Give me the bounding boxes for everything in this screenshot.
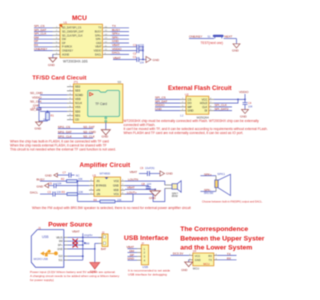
X mark xyxy=(73,239,78,244)
svg-text:SPK-: SPK- xyxy=(96,38,102,41)
capacitor C6 xyxy=(147,171,149,176)
svg-text:R2: R2 xyxy=(61,177,65,181)
svg-text:TF/SD Card Ciecuit: TF/SD Card Ciecuit xyxy=(32,75,86,81)
svg-text:VDDIO: VDDIO xyxy=(239,90,249,94)
feedback row with R4 xyxy=(78,194,134,201)
svg-text:Choose between built-in FM(SPK: Choose between built-in FM(SPK) output a… xyxy=(202,199,263,203)
svg-text:VBAT: VBAT xyxy=(127,186,135,190)
svg-text:C3: C3 xyxy=(48,190,52,194)
svg-text:DM: DM xyxy=(59,240,63,243)
ground xyxy=(36,121,43,126)
net labels xyxy=(126,245,134,261)
capacitor C9 branch xyxy=(37,99,42,121)
svg-text:GND: GND xyxy=(113,184,119,188)
chip U1 corner marker xyxy=(59,25,62,28)
chip U1 body xyxy=(60,24,103,58)
svg-text:S11: S11 xyxy=(59,259,64,262)
ground (AGND) xyxy=(49,58,57,62)
ground (left arrow) xyxy=(54,173,58,177)
svg-text:GND: GND xyxy=(195,258,201,262)
pin stubs xyxy=(189,255,218,259)
svg-text:R1: R1 xyxy=(51,114,55,118)
svg-text:C3: C3 xyxy=(133,55,137,59)
svg-text:This circuit is not needed whe: This circuit is not needed when the exte… xyxy=(10,148,116,152)
svg-text:VDD: VDD xyxy=(75,97,81,101)
ground xyxy=(150,189,160,196)
svg-text:GND: GND xyxy=(45,174,53,178)
svg-text:VDDIO: VDDIO xyxy=(94,50,102,53)
wire xyxy=(113,59,146,61)
USB logo xyxy=(44,251,55,255)
svg-text:NC: NC xyxy=(76,173,80,177)
svg-text:10uF(N): 10uF(N) xyxy=(145,166,155,170)
svg-text:VBUS: VBUS xyxy=(56,236,63,239)
wire xyxy=(189,39,237,44)
svg-text:SD_DAT/SPI_CS: SD_DAT/SPI_CS xyxy=(62,27,82,30)
svg-text:8R/W: 8R/W xyxy=(172,195,179,198)
svg-text:VCC: VCC xyxy=(195,254,201,258)
svg-text:VSS: VSS xyxy=(75,105,81,109)
svg-text:SCMD: SCMD xyxy=(75,93,83,97)
svg-text:DM: DM xyxy=(62,38,66,41)
svg-text:GND: GND xyxy=(57,248,63,251)
svg-text:ONE/KEY: ONE/KEY xyxy=(189,35,202,39)
svg-text:WP: WP xyxy=(188,105,193,109)
svg-text:DACL: DACL xyxy=(112,51,120,55)
svg-text:10K: 10K xyxy=(79,190,84,194)
svg-text:VBAT: VBAT xyxy=(72,230,80,234)
chip U2 pin names xyxy=(188,97,194,112)
svg-text:When the FM output with 8R0.5W: When the FM output with 8R0.5W speaker i… xyxy=(32,206,191,210)
svg-text:DP: DP xyxy=(62,42,66,45)
speaker SPK2 xyxy=(165,185,172,188)
svg-text:SD3: SD3 xyxy=(75,89,81,93)
svg-text:TEST(next one): TEST(next one) xyxy=(201,41,224,45)
right wires xyxy=(214,99,245,110)
wires xyxy=(68,233,103,262)
feedback vertical xyxy=(77,180,79,182)
right pin stubs xyxy=(103,28,111,55)
svg-text:SCLK: SCLK xyxy=(75,101,82,105)
svg-text:C7: C7 xyxy=(63,171,67,175)
svg-text:WT4800: WT4800 xyxy=(100,172,111,176)
svg-text:GND: GND xyxy=(181,268,187,272)
svg-text:MCU: MCU xyxy=(72,15,87,22)
svg-text:C2: C2 xyxy=(133,52,137,56)
pin numbers xyxy=(70,85,72,120)
pin stubs xyxy=(180,99,214,110)
svg-text:AGND: AGND xyxy=(62,53,69,56)
svg-text:VDD: VDD xyxy=(113,188,119,192)
capacitor C7 xyxy=(69,173,71,178)
svg-text:MCU: MCU xyxy=(193,266,199,270)
svg-text:R4: R4 xyxy=(94,198,98,202)
svg-text:CS: CS xyxy=(188,97,192,101)
svg-text:104: 104 xyxy=(140,62,145,65)
svg-text:DACL: DACL xyxy=(30,190,38,194)
chip U2 body xyxy=(186,96,209,114)
svg-text:BUSY: BUSY xyxy=(95,31,102,34)
pin numbers xyxy=(182,98,212,111)
svg-text:The Correspondence: The Correspondence xyxy=(180,226,248,233)
svg-text:Amplifier Circuit: Amplifier Circuit xyxy=(80,162,131,169)
X mark xyxy=(73,242,78,247)
svg-text:104: 104 xyxy=(147,182,152,186)
VO2 wire to speaker xyxy=(125,181,165,202)
svg-text:DC3.3V: DC3.3V xyxy=(173,252,184,256)
net labels xyxy=(30,91,44,112)
svg-text:SPK+: SPK+ xyxy=(95,34,102,37)
capacitor C2 xyxy=(137,48,139,53)
svg-text:MICRO USB: MICRO USB xyxy=(34,258,49,261)
svg-text:GND: GND xyxy=(153,58,161,62)
svg-text:LOUTN: LOUTN xyxy=(128,177,138,181)
svg-text:VBAT: VBAT xyxy=(95,46,102,49)
svg-text:DI: DI xyxy=(205,109,208,113)
svg-text:P-WRCK: P-WRCK xyxy=(62,46,72,49)
note text xyxy=(10,140,116,152)
TF socket body xyxy=(73,84,122,123)
svg-text:-2N: -2N xyxy=(96,192,100,196)
capacitor C3 xyxy=(137,57,139,62)
capacitor C10 xyxy=(53,192,55,197)
svg-text:CD: CD xyxy=(75,118,79,122)
svg-text:C6: C6 xyxy=(140,166,144,170)
right net labels xyxy=(112,24,122,55)
svg-text:20K: 20K xyxy=(117,198,122,202)
svg-text:+IN: +IN xyxy=(96,188,100,192)
svg-text:ONE/KEY: ONE/KEY xyxy=(34,47,47,51)
svg-text:BAT: BAT xyxy=(101,247,107,251)
svg-text:SD0: SD0 xyxy=(75,109,81,113)
svg-text:20K: 20K xyxy=(78,177,83,181)
svg-text:TF Card: TF Card xyxy=(95,102,107,106)
chip U3 body xyxy=(94,177,121,196)
svg-text:WT2003HX-16S: WT2003HX-16S xyxy=(63,60,88,64)
svg-text:CLK: CLK xyxy=(202,105,207,109)
svg-text:GND: GND xyxy=(240,115,248,119)
svg-text:1K: 1K xyxy=(43,118,46,122)
svg-text:TX: TX xyxy=(98,27,102,30)
svg-text:VO2: VO2 xyxy=(114,179,120,183)
svg-text:GND: GND xyxy=(188,109,194,113)
left wires xyxy=(155,99,180,110)
chip U1 left pin names xyxy=(62,27,84,57)
left net labels xyxy=(34,24,47,51)
pin numbers xyxy=(189,254,217,260)
pin stubs xyxy=(67,87,73,120)
svg-text:BUSY: BUSY xyxy=(37,177,45,181)
svg-text:C9: C9 xyxy=(32,106,36,110)
left net labels xyxy=(155,96,167,111)
diode D1 (not fitted) xyxy=(73,239,77,243)
svg-text:C5: C5 xyxy=(49,181,53,185)
diode D2 (not fitted) xyxy=(73,243,77,247)
note text xyxy=(124,119,268,135)
resistor R1 xyxy=(47,111,49,113)
AGND wire to ground xyxy=(52,54,54,57)
svg-text:R3: R3 xyxy=(62,190,66,194)
svg-text:DP+: DP+ xyxy=(58,244,63,247)
pin numbers xyxy=(56,26,108,55)
svg-text:TX: TX xyxy=(227,252,231,256)
svg-text:GND: GND xyxy=(149,196,157,200)
svg-text:104: 104 xyxy=(57,181,62,185)
svg-text:VCC: VCC xyxy=(202,97,208,101)
svg-text:BYPASS: BYPASS xyxy=(96,184,106,188)
svg-text:RX: RX xyxy=(208,254,212,258)
socket bottom pin to ground xyxy=(105,123,107,130)
ground (power) xyxy=(90,263,100,270)
svg-text:for power supply): for power supply) xyxy=(30,278,54,282)
USB pin names xyxy=(56,236,63,262)
capacitor C5 xyxy=(54,183,56,188)
svg-text:GND: GND xyxy=(232,49,240,53)
svg-text:GND: GND xyxy=(96,42,102,45)
note xyxy=(30,270,120,282)
right net labels xyxy=(215,103,229,111)
capacitor C8 xyxy=(146,187,151,190)
net tie rows xyxy=(58,125,97,139)
left pin stubs xyxy=(53,28,61,55)
svg-text:Between the Upper Syster: Between the Upper Syster xyxy=(180,235,265,242)
wires xyxy=(39,95,67,112)
svg-text:104: 104 xyxy=(248,105,253,109)
svg-text:VBAT: VBAT xyxy=(130,170,138,174)
bottom tab xyxy=(105,117,107,119)
svg-text:8R0.5W: 8R0.5W xyxy=(204,191,214,195)
ground xyxy=(185,262,193,267)
svg-text:VO1: VO1 xyxy=(114,192,120,196)
svg-text:SPI_DAT2: SPI_DAT2 xyxy=(215,107,229,111)
resistor R2 xyxy=(67,180,78,183)
wires xyxy=(171,255,237,262)
VBAT/VDDIO wires to caps xyxy=(111,47,144,60)
svg-text:C4: C4 xyxy=(248,101,252,105)
pin numbers xyxy=(91,180,125,195)
svg-text:GND: GND xyxy=(166,172,174,176)
svg-text:SD_CMD/SPI_DAT: SD_CMD/SPI_DAT xyxy=(62,31,84,34)
pin names xyxy=(75,85,83,122)
svg-text:GND: GND xyxy=(127,257,135,261)
capacitor C1 xyxy=(137,44,139,49)
svg-text:External Flash Circuit: External Flash Circuit xyxy=(168,85,232,92)
svg-text:C1: C1 xyxy=(133,43,137,47)
pin stubs xyxy=(89,181,125,194)
svg-text:GND: GND xyxy=(102,135,110,139)
right row wires xyxy=(111,28,130,55)
svg-text:SPK1: SPK1 xyxy=(217,172,225,176)
svg-text:DACL: DACL xyxy=(95,53,102,56)
svg-text:GND: GND xyxy=(35,127,43,131)
pin stubs xyxy=(137,249,141,261)
svg-text:GND: GND xyxy=(48,63,56,67)
pin stubs xyxy=(64,237,68,260)
svg-text:S10: S10 xyxy=(58,255,63,258)
svg-text:SD1: SD1 xyxy=(75,114,81,118)
svg-text:stngrtbv: stngrtbv xyxy=(84,234,93,237)
svg-text:USB: USB xyxy=(42,235,49,239)
chip U1 right pin names xyxy=(94,27,103,57)
left wires xyxy=(34,28,53,51)
svg-text:Power Source: Power Source xyxy=(48,221,92,228)
svg-text:ONE/KEY: ONE/KEY xyxy=(62,50,73,53)
note xyxy=(128,269,170,277)
junction xyxy=(142,59,144,61)
svg-text:-IN: -IN xyxy=(96,179,100,183)
svg-text:MCU: MCU xyxy=(203,262,209,266)
resistor R4 xyxy=(100,200,115,203)
ground (right, arrow) xyxy=(146,57,151,63)
svg-text:NEXT: NEXT xyxy=(224,35,232,39)
svg-text:HOLD: HOLD xyxy=(200,101,208,105)
ground (right arrow) xyxy=(160,171,165,176)
ground xyxy=(233,44,240,48)
svg-text:C8: C8 xyxy=(141,182,145,186)
svg-text:and the Lower System: and the Lower System xyxy=(180,244,252,251)
resistor R3 xyxy=(67,193,78,196)
svg-text:GND: GND xyxy=(155,107,163,111)
TF card icon xyxy=(88,90,120,116)
marker xyxy=(90,93,93,96)
svg-text:DO: DO xyxy=(188,101,192,105)
svg-text:When FLASH and TF card are not: When FLASH and TF card are not externall… xyxy=(124,131,244,135)
svg-text:RX: RX xyxy=(227,256,231,260)
svg-text:GND: GND xyxy=(37,185,45,189)
svg-text:SD_CLK/SPI_CLK: SD_CLK/SPI_CLK xyxy=(62,34,83,37)
svg-text:LOUT+: LOUT+ xyxy=(127,190,137,194)
ground xyxy=(242,110,249,114)
wires xyxy=(128,249,138,261)
svg-text:SD2: SD2 xyxy=(75,85,81,89)
svg-text:USB Interface: USB Interface xyxy=(124,235,169,242)
svg-text:U4: U4 xyxy=(193,249,197,253)
svg-text:USB interface for debugging: USB interface for debugging xyxy=(128,273,167,277)
